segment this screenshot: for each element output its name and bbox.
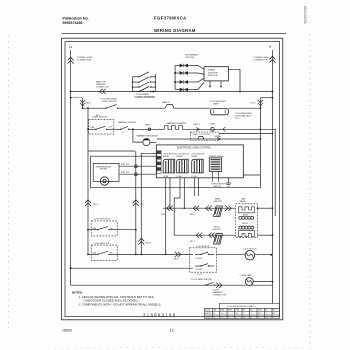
EOC pin strip P1 (157, 151, 161, 174)
wire lamp line y108.2 (83, 107, 106, 109)
fold mark dotted line left (8, 36, 10, 330)
wire y133.2 (219, 133, 272, 135)
wire warmer bus y129.3 (114, 128, 121, 130)
wire branch x82.6 (82, 98, 84, 109)
svg-text:PNK 100: PNK 100 (121, 164, 130, 166)
power cord connector L1 chevron (68, 57, 74, 63)
svg-text:PNK 100: PNK 100 (121, 172, 130, 174)
svg-text:UNLCK: UNLCK (205, 313, 212, 315)
svg-text:SW: SW (214, 310, 217, 312)
svg-text:NO: NO (109, 126, 112, 128)
svg-text:BROIL: BROIL (243, 223, 248, 225)
relay K1 (lock motor relay) (163, 154, 176, 178)
valve thermostat zigzag (239, 231, 255, 237)
svg-text:L1 BK: L1 BK (163, 176, 169, 178)
svg-text:Publication No.: Publication No. (63, 17, 89, 21)
svg-text:WARMER SWITCH: WARMER SWITCH (118, 121, 137, 124)
svg-text:IGNITOR: IGNITOR (213, 229, 222, 231)
temperature probe circle (100, 177, 108, 185)
svg-text:WIRING DIAGRAM: WIRING DIAGRAM (154, 28, 196, 33)
wire console bottom y187.7 (91, 187, 261, 189)
chevron up x134.8 y202 (133, 200, 139, 206)
svg-text:LIGHT SWITCH *: LIGHT SWITCH * (92, 117, 108, 119)
wire lock switch B row y254.4 (117, 253, 193, 255)
svg-text:POWER CORDCONNECTOR: POWER CORDCONNECTOR (254, 57, 270, 62)
fold mark dotted line right (309, 34, 311, 350)
wire bottom bus y285.2 (71, 284, 273, 286)
wire stub y97.7 left (71, 97, 83, 99)
svg-text:TRANSFORMER: TRANSFORMER (209, 155, 224, 158)
svg-text:POWER CORDCONNECTOR: POWER CORDCONNECTOR (77, 57, 93, 62)
wire branch x275.2 (274, 129, 276, 216)
svg-text:LOCKD: LOCKD (205, 317, 212, 319)
svg-text:5995374336: 5995374336 (304, 6, 308, 24)
wire branch x260.4 (259, 98, 261, 188)
wire light sw to lock branch y151 / console top y156.2 (88, 150, 135, 152)
svg-text:COM: COM (89, 127, 94, 129)
spark module bottom stubs (209, 81, 211, 86)
switch bank: top burner ignition switches (133, 72, 156, 92)
wire relay drop x184.3 (183, 178, 185, 208)
ground (226, 178, 232, 186)
wire broil ignitor row y237 (174, 234, 235, 236)
chevron on lock row (175, 252, 181, 257)
thermal fuse dashed box (190, 132, 219, 140)
wire relay drop x165.7 (165, 178, 167, 255)
wire lock motor to N (255, 254, 272, 256)
svg-text:318003188: 318003188 (143, 313, 177, 318)
svg-text:VALVE: VALVE (240, 200, 247, 203)
svg-text:12: 12 (170, 329, 174, 333)
wire L1 main vertical (70, 50, 72, 285)
svg-text:* FLUORESCENTLIGHT SWITCH: * FLUORESCENTLIGHT SWITCH (100, 99, 118, 104)
wire main bus L1-N (71, 91, 273, 93)
temperature probe box (93, 163, 119, 181)
wire relay drop x180 (174, 178, 180, 235)
svg-text:LINE CUT SWITCH: LINE CUT SWITCH (138, 97, 156, 99)
lock switch A (dashed box) (91, 221, 117, 236)
fold mark dotted line bottom (55, 347, 308, 349)
wire branch x88 (87, 108, 89, 254)
electronic oven control box U2 (156, 145, 243, 178)
fluorescent light switch (100, 99, 118, 104)
svg-text:* OVEN LAMP: * OVEN LAMP (239, 274, 253, 277)
lock motor switch contacts table (205, 303, 280, 318)
power cord connector N chevron (269, 56, 275, 62)
svg-text:FUSE: FUSE (210, 124, 216, 126)
svg-text:COM: COM (258, 310, 263, 312)
main harness connector chevron on bus (100, 89, 106, 94)
wire lock switch A row y229.7 (117, 229, 136, 231)
broil ignitor hatched element (214, 234, 223, 245)
spark module U1 (204, 67, 228, 81)
svg-text:GY 3: GY 3 (197, 274, 201, 276)
chevron up x142.6 y238 (138, 238, 144, 244)
chevron down x260.4 (258, 100, 263, 106)
wire oven lamp to N (253, 281, 272, 283)
svg-text:LOCK SWITCH B: LOCK SWITCH B (93, 243, 109, 245)
relay K3 (broil relay) (192, 154, 205, 178)
svg-text:BAKE LT: BAKE LT (162, 101, 171, 104)
wire y138.9 (157, 138, 260, 140)
wire bake ignitor row y209 (163, 207, 236, 209)
wire lamp return y108.2 (229, 107, 261, 109)
header rule (62, 33, 286, 35)
svg-text:x x: x x (122, 132, 124, 134)
svg-text:LINE L N CT FUSE: LINE L N CT FUSE (193, 134, 211, 136)
svg-text:N: N (269, 45, 271, 49)
wire relay drop x170 (169, 178, 171, 208)
svg-text:GY 2: GY 2 (251, 103, 257, 105)
svg-text:WARMER INDICATOR: WARMER INDICATOR (137, 135, 159, 138)
svg-text:BK 2: BK 2 (87, 103, 93, 105)
bake ignitor hatched element (214, 206, 223, 217)
svg-text:WARMER ELEMENT: WARMER ELEMENT (167, 122, 188, 125)
svg-text:NOTES:: NOTES: (72, 291, 83, 295)
wire console left x90.5 (90, 156, 92, 188)
bake valve coil (239, 207, 255, 220)
svg-text:RD 3: RD 3 (146, 243, 152, 245)
light switch (dashed box) (89, 120, 114, 134)
wire eoc right y174.3 (243, 174, 260, 176)
svg-text:RELAY: RELAY (163, 155, 170, 158)
header: publication number (63, 16, 196, 34)
chevron down x82.6 (80, 100, 85, 106)
PNK wires to EOC (119, 165, 156, 167)
svg-text:WHT 9: WHT 9 (194, 124, 201, 126)
svg-text:DOOR: DOOR (205, 310, 211, 312)
svg-text:LOCK SWITCH A: LOCK SWITCH A (94, 218, 110, 221)
lock switch B (dashed box) (91, 245, 117, 260)
wire lock bus y268.2 (71, 267, 193, 269)
svg-text:* DOOR LAMP SWITCH: * DOOR LAMP SWITCH (190, 278, 212, 281)
fluorescent lamp (211, 108, 229, 114)
svg-text:COM NO: COM NO (195, 258, 203, 260)
wire branch x141.3 (EOC to lock row) (141, 153, 156, 254)
notes (72, 291, 162, 307)
wire branch x135.8 (console to lock switches) (135, 151, 137, 254)
svg-text:BAKE: BAKE (243, 214, 249, 217)
svg-text:IGNITOR: IGNITOR (214, 201, 223, 203)
svg-text:06/02: 06/02 (63, 329, 73, 333)
wire stub y97.7 right (260, 97, 272, 99)
svg-text:5995374336: 5995374336 (63, 21, 83, 25)
svg-text:FGF379WXCA: FGF379WXCA (154, 16, 187, 21)
relay K2 (bake relay) (177, 154, 190, 178)
svg-text:BK 1: BK 1 (140, 204, 146, 206)
wire N main vertical (271, 50, 273, 304)
wire gas valve to N stubs (258, 207, 273, 209)
oven ignitor switch below EOC (212, 172, 214, 183)
svg-text:WHT 4: WHT 4 (145, 124, 152, 126)
svg-text:LOCK MOTOR SWITCH CONTACTS: LOCK MOTOR SWITCH CONTACTS (228, 305, 257, 308)
wire relay drop x198.6 (198, 178, 200, 196)
spark gap electrodes (4) (174, 64, 204, 92)
svg-text:RD 4: RD 4 (93, 204, 99, 206)
wire relay drop x194.3 (193, 178, 195, 196)
svg-text:COM NC: COM NC (195, 269, 203, 271)
chevron up x88 y202 (85, 200, 91, 206)
broil valve coil (239, 223, 254, 229)
svg-text:L1: L1 (69, 45, 73, 49)
svg-text:2. COMPONENTS WITH * DO NOT A: 2. COMPONENTS WITH * DO NOT APPEAR ON AL… (78, 302, 161, 306)
svg-text:COM: COM (235, 310, 240, 312)
svg-text:ELECTRONIC OVEN CONTROL: ELECTRONIC OVEN CONTROL (177, 147, 212, 149)
thermal bump on lamp line (165, 105, 174, 109)
diagram outer border (double) (62, 38, 283, 320)
wire spark module drop x240 (228, 69, 240, 91)
